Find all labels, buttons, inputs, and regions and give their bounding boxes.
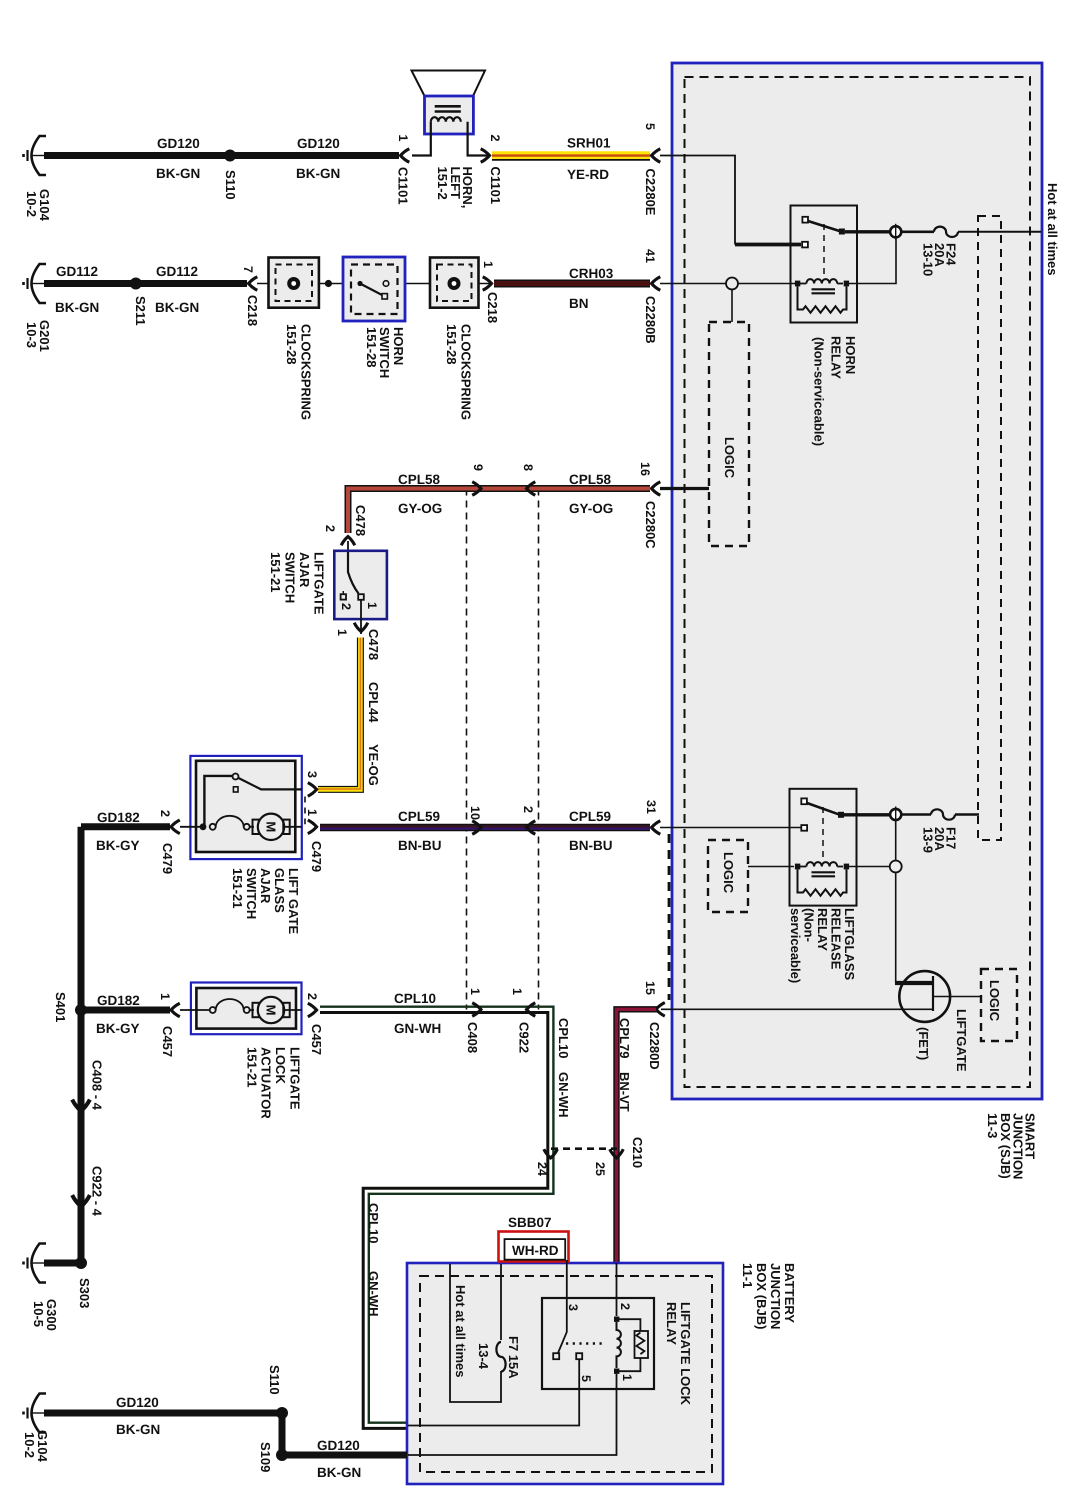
svg-text:Hot at all times: Hot at all times [453,1285,468,1377]
svg-text:S211: S211 [133,296,148,326]
ground G201 [24,264,47,303]
svg-text:C218: C218 [245,295,260,326]
svg-text:Hot at all times: Hot at all times [1045,183,1060,275]
wire CPL58 internal to LOGIC1 [660,487,709,490]
svg-text:SBB07: SBB07 [508,1215,552,1230]
svg-text:GN-WH: GN-WH [556,1072,571,1118]
svg-text:GD112: GD112 [156,264,198,279]
svg-text:CPL10: CPL10 [394,991,436,1006]
wire CPL44 YE-OG [318,638,360,790]
in-line connector C922 dashed line [538,489,540,1010]
connector C408 pin 4 (in-line) [72,1100,90,1111]
svg-text:13-10: 13-10 [921,243,936,276]
fuse F7 15A 13-4 [496,1342,505,1372]
svg-text:SWITCH: SWITCH [244,868,259,919]
svg-text:LIFTGATE: LIFTGATE [954,1009,969,1072]
svg-text:RELAY: RELAY [664,1302,679,1345]
svg-text:BK-GN: BK-GN [55,300,99,315]
fuse F24 20A 13-10 [934,227,958,237]
wire stud down to FET [895,821,897,984]
svg-text:C478: C478 [366,629,381,660]
svg-text:BN-BU: BN-BU [398,838,442,853]
wire relay coil to stud (horn) [849,238,896,284]
wire GD120 BK-GN (bottom left) [44,1410,282,1417]
splice S109 [276,1449,288,1461]
svg-text:2: 2 [618,1303,632,1310]
svg-text:2: 2 [305,993,319,1000]
svg-text:C457: C457 [160,1026,175,1057]
connector C457 pin 2 [308,1003,317,1017]
svg-text:CPL58: CPL58 [398,472,441,487]
svg-text:CLOCKSPRING: CLOCKSPRING [299,324,314,420]
svg-text:(FET): (FET) [916,1027,931,1060]
svg-text:5: 5 [579,1375,593,1382]
svg-text:YE-RD: YE-RD [567,167,609,182]
pin 15 C2280D [656,1003,665,1017]
svg-text:10: 10 [468,806,482,820]
svg-text:151-21: 151-21 [244,1047,259,1087]
splice S110 [224,150,236,162]
svg-text:1: 1 [481,261,495,268]
svg-text:BK-GN: BK-GN [317,1465,361,1480]
svg-text:BK-GN: BK-GN [296,166,340,181]
svg-text:CPL58: CPL58 [569,472,612,487]
heavy dashed connector line C2280 (31 to 15) [668,834,671,1000]
svg-text:2: 2 [158,810,172,817]
battery junction box BJB outline [407,1263,723,1484]
svg-text:151-28: 151-28 [364,327,379,367]
svg-text:C2280D: C2280D [647,1022,662,1070]
connector C457 pin 1 [171,1003,180,1017]
connector C218 pin 7 [249,277,258,291]
logic box U-LOGIC3 (liftgate FET) [981,969,1017,1041]
svg-text:AJAR: AJAR [258,868,273,904]
pin 5 C2280E [652,149,661,163]
connector C478 pin 1 (bottom) [354,623,368,632]
wire GD182 vertical (S401 chain) [78,827,85,1263]
svg-text:C2280C: C2280C [643,501,658,549]
wire SRH01 YE-RD [492,155,650,160]
svg-text:151-28: 151-28 [444,324,459,364]
svg-text:15: 15 [643,981,657,995]
svg-text:10-3: 10-3 [24,322,39,348]
logic box U-LOGIC1 (horn) [709,322,749,546]
box Hot at all times (BJB) [450,1264,501,1402]
node (dot between) [325,280,332,287]
svg-text:C2280E: C2280E [643,169,658,216]
switch S3 LIFT GATE GLASS AJAR SWITCH 151-21 [180,756,302,859]
clockspring (left) 151-28 [269,258,319,308]
svg-text:BOX (BJB): BOX (BJB) [754,1263,769,1329]
svg-text:5: 5 [643,123,657,130]
svg-text:BK-GN: BK-GN [116,1422,160,1437]
svg-text:C408: C408 [465,1022,480,1053]
svg-text:GY-OG: GY-OG [569,501,613,516]
smart junction box SJB outline [672,63,1042,1099]
svg-text:CPL44: CPL44 [366,682,381,723]
wire GD182 BK-GY (upper) [81,823,170,830]
connector C218 pin 1 [483,277,492,291]
connector C479 pin 3 [308,783,317,797]
svg-text:11-3: 11-3 [985,1113,1000,1138]
svg-text:41: 41 [643,249,657,263]
wire CPL59 BN-BU [320,826,650,828]
svg-text:M: M [264,1005,279,1016]
svg-text:BN: BN [569,296,589,311]
connector C1101 pin 2 [481,149,490,163]
connector C479 pin 1 [308,820,317,834]
wire LOGIC2 to relay coil [748,866,794,868]
svg-text:BN-VT: BN-VT [617,1072,632,1112]
clockspring (right) 151-28 [430,258,479,308]
svg-text:C2280B: C2280B [643,296,658,344]
wire fuse F24 to Hot at all times [958,231,1041,233]
relay K1 HORN RELAY [791,206,891,323]
ground G104 (top) [24,136,47,175]
svg-text:GD182: GD182 [97,810,140,825]
connector C479 pin 2 (left) [171,820,180,834]
relay K2 LIFTGLASS RELEASE RELAY [790,789,891,906]
svg-text:RELAY: RELAY [829,336,844,379]
svg-text:S401: S401 [53,992,68,1022]
wire CRH03 BN [494,280,650,288]
svg-text:WH-RD: WH-RD [512,1243,559,1258]
bus bar (Hot at all times dashed rect) [978,216,1001,840]
svg-text:CRH03: CRH03 [569,266,614,281]
horn H1 HORN, LEFT 151-2 [412,71,489,156]
splice S303 [75,1257,87,1269]
svg-text:GY-OG: GY-OG [398,501,442,516]
pin 41 C2280B [652,277,661,291]
splice S110 (bottom) [276,1407,288,1419]
splice S401 [75,1004,87,1016]
svg-text:LIFT GATE: LIFT GATE [286,868,301,935]
fuse F17 20A 13-9 [931,809,955,819]
fusible link SBB07 WH-RD [499,1215,569,1262]
svg-text:LOGIC: LOGIC [722,437,737,479]
svg-text:CPL59: CPL59 [398,809,440,824]
svg-text:C210: C210 [630,1137,645,1168]
svg-text:C218: C218 [485,292,500,323]
wire SRH01 internal to horn relay [660,156,735,245]
svg-text:GD120: GD120 [317,1438,360,1453]
svg-text:LIFTGATE: LIFTGATE [312,552,327,615]
wire to ground G300 [44,1260,81,1267]
svg-text:(Non-serviceable): (Non-serviceable) [812,337,827,446]
wire CRH03 internal to horn relay coil [660,283,795,285]
svg-text:GD120: GD120 [116,1395,159,1410]
wire CPL10 GN-WH [320,1007,553,1429]
svg-text:9: 9 [471,464,485,471]
svg-text:ACTUATOR: ACTUATOR [259,1047,274,1119]
relay K3 LIFTGATE LOCK RELAY [408,1263,654,1455]
svg-text:16: 16 [638,462,652,476]
connector arrows pins 9 / 8 [472,482,481,496]
wire SBB07 to relay pin 3 [558,1260,567,1353]
svg-text:GD120: GD120 [297,136,340,151]
svg-text:13-9: 13-9 [921,827,936,853]
wire stud to fuse F17 [902,813,932,816]
svg-text:GN-WH: GN-WH [394,1021,441,1036]
svg-text:10-5: 10-5 [31,1301,46,1327]
svg-text:151-2: 151-2 [435,167,450,200]
svg-text:7: 7 [241,266,255,273]
stud node (horn feed) [890,224,901,240]
svg-text:3: 3 [566,1304,580,1311]
svg-text:HORN: HORN [843,336,858,374]
wire GD120 BK-GN (ground to C1101) [44,152,399,159]
connector C1101 pin 1 [401,149,410,163]
svg-text:C1101: C1101 [488,167,503,205]
svg-text:24: 24 [535,1162,549,1176]
svg-text:31: 31 [644,800,658,814]
svg-text:M: M [264,821,279,832]
svg-text:1: 1 [510,988,524,995]
svg-text:151-21: 151-21 [268,552,283,592]
svg-text:BK-GN: BK-GN [155,300,199,315]
in-line connector C210 [551,1147,617,1150]
svg-text:1: 1 [620,1374,634,1381]
svg-text:11-1: 11-1 [740,1263,755,1288]
svg-text:3: 3 [305,771,319,778]
in-line connector C408 dashed line [466,489,468,1010]
svg-text:8: 8 [521,464,535,471]
svg-text:SRH01: SRH01 [567,136,611,151]
svg-text:CPL59: CPL59 [569,809,611,824]
svg-text:1: 1 [335,629,349,636]
switch S-HORN horn switch 151-28 [343,257,405,321]
wire CPL58 GY-OG [348,489,650,534]
svg-text:1: 1 [305,809,319,816]
svg-text:S110: S110 [267,1365,282,1395]
wire S110 to S109 [279,1413,286,1455]
svg-text:C479: C479 [309,841,324,872]
svg-text:SWITCH: SWITCH [283,552,298,603]
wire stud to fuse F24 [902,231,935,234]
svg-text:BK-GY: BK-GY [96,1021,140,1036]
wire GD182 BK-GY (lower) [81,1007,170,1014]
svg-text:JUNCTION: JUNCTION [768,1263,783,1329]
svg-text:LOCK: LOCK [273,1047,288,1084]
splice S211 [130,278,142,290]
svg-text:YE-OG: YE-OG [366,744,381,786]
switch S2 LIFTGATE AJAR SWITCH 151-21 [334,541,387,634]
svg-text:CLOCKSPRING: CLOCKSPRING [459,324,474,420]
svg-text:CPL79: CPL79 [617,1018,632,1058]
svg-text:S303: S303 [77,1278,92,1308]
svg-text:C408 - 4: C408 - 4 [90,1060,105,1111]
svg-text:LIFTGATE LOCK: LIFTGATE LOCK [678,1302,693,1406]
svg-text:LOGIC: LOGIC [987,980,1002,1022]
ground G104 (bottom) [24,1394,47,1433]
svg-text:GD112: GD112 [56,264,98,279]
svg-text:C457: C457 [309,1024,324,1055]
wire GD112 BK-GN [44,280,247,287]
svg-text:GLASS: GLASS [272,868,287,913]
svg-text:serviceable): serviceable) [788,908,803,983]
svg-text:1: 1 [158,993,172,1000]
wire C2280D pin15 to FET [661,1008,933,1010]
svg-text:HORN: HORN [391,327,406,365]
svg-text:F7 15A: F7 15A [506,1336,521,1379]
transistor Q1 LIFTGATE (FET) [895,971,981,1022]
connector C922 pin 4 (in-line) [72,1195,90,1206]
svg-text:1: 1 [396,135,410,142]
svg-text:2: 2 [323,525,337,532]
svg-text:S110: S110 [223,170,238,200]
svg-text:GD120: GD120 [157,136,200,151]
ground G300 [24,1244,47,1283]
svg-text:151-28: 151-28 [284,324,299,364]
svg-text:GN-WH: GN-WH [366,1271,381,1317]
wire CPL59 internal to liftglass relay [660,827,801,829]
wire GD120 BK-GN (to BJB) [282,1452,407,1459]
in-line C479 dashes [304,797,306,825]
svg-text:C1101: C1101 [396,167,411,205]
svg-text:AJAR: AJAR [297,552,312,588]
logic box U-LOGIC2 (liftglass) [708,840,748,912]
wire CPL79 BN-VT [617,1009,658,1263]
svg-text:BATTERY: BATTERY [782,1263,797,1323]
svg-text:10-2: 10-2 [22,1432,37,1458]
pin 31 [652,821,661,835]
svg-text:2: 2 [488,135,502,142]
svg-text:S109: S109 [258,1442,273,1472]
svg-text:C922: C922 [517,1022,532,1053]
svg-text:CPL10: CPL10 [366,1203,381,1243]
svg-text:1: 1 [468,988,482,995]
svg-text:GD182: GD182 [97,993,140,1008]
svg-text:BK-GN: BK-GN [156,166,200,181]
connector C478 pin 2 (top) [341,537,355,546]
svg-text:BK-GY: BK-GY [96,838,140,853]
svg-text:151-21: 151-21 [230,868,245,908]
node LOGIC tap circle (horn) [726,278,738,290]
svg-text:C479: C479 [160,843,175,874]
svg-text:LIFTGATE: LIFTGATE [288,1047,303,1110]
stud node (liftgate feed) [890,807,901,823]
svg-text:LOGIC: LOGIC [721,852,736,894]
wire fuse F17 to bus [955,813,979,816]
svg-text:CPL10: CPL10 [556,1018,571,1058]
wire through clockspring [257,283,490,285]
motor M1 LIFTGATE LOCK ACTUATOR 151-21 [180,983,302,1035]
svg-text:10-2: 10-2 [24,191,39,217]
svg-text:25: 25 [593,1162,607,1176]
svg-text:13-4: 13-4 [476,1343,491,1370]
pin 16 C2280C [652,482,661,496]
svg-text:C922 - 4: C922 - 4 [90,1166,105,1217]
wire coil out to node (liftglass) [849,866,891,868]
svg-text:2: 2 [339,603,353,610]
svg-text:2: 2 [521,806,535,813]
svg-text:BN-BU: BN-BU [569,838,613,853]
svg-text:C478: C478 [353,505,368,536]
svg-text:1: 1 [365,602,379,609]
node circle (liftglass coil) [890,861,902,873]
